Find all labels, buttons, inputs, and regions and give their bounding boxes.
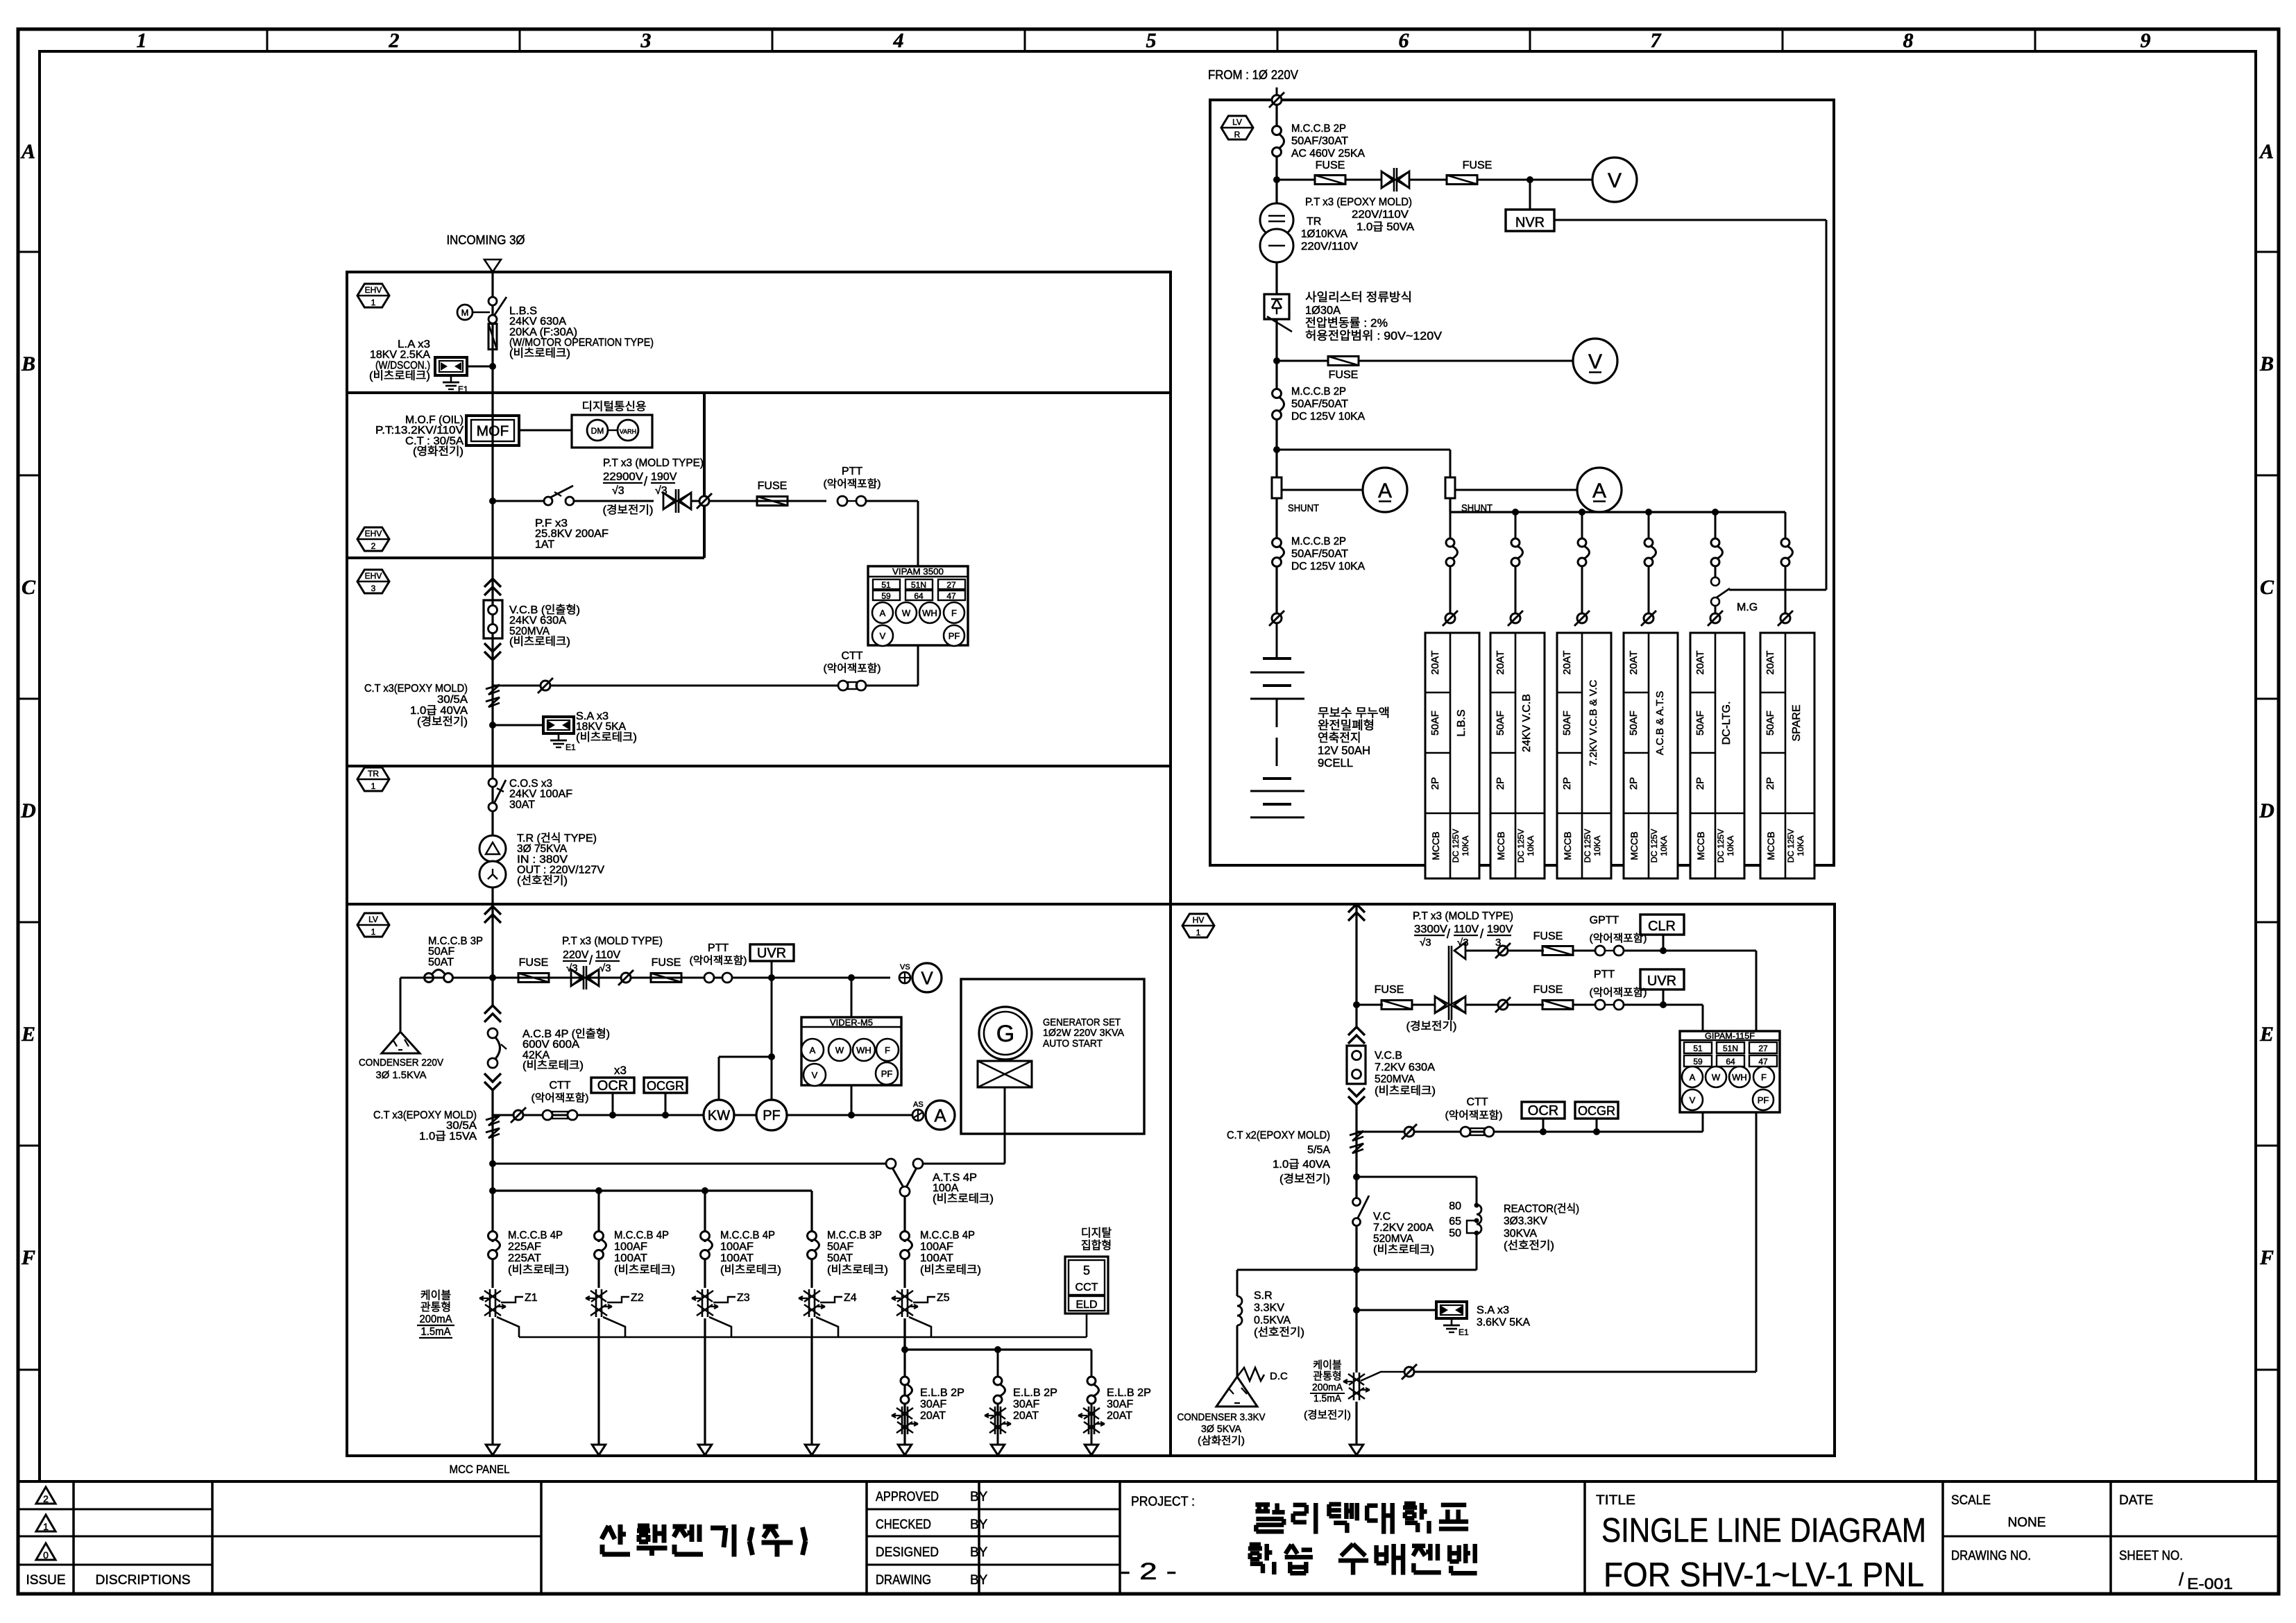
svg-text:59: 59 xyxy=(881,591,891,601)
svg-text:(비츠로테크): (비츠로테크) xyxy=(614,1264,675,1276)
svg-text:F: F xyxy=(2259,1246,2274,1269)
wire Z1-Z4 to bottom arrows xyxy=(486,1445,500,1455)
svg-text:CTT: CTT xyxy=(549,1080,570,1091)
svg-text:OCR: OCR xyxy=(597,1078,628,1094)
D.C resistor xyxy=(1237,1368,1264,1381)
svg-text:G: G xyxy=(996,1021,1014,1047)
disconnect PTT HV xyxy=(1498,1000,1508,1010)
svg-text:FUSE: FUSE xyxy=(1329,369,1359,381)
svg-text:√3: √3 xyxy=(1420,937,1431,949)
svg-text:(비츠로테크): (비츠로테크) xyxy=(576,731,637,743)
svg-text:100AT: 100AT xyxy=(720,1252,754,1264)
svg-text:UVR: UVR xyxy=(1647,974,1676,989)
svg-text:30AF: 30AF xyxy=(1107,1399,1133,1411)
svg-text:DC 125V: DC 125V xyxy=(1451,829,1461,863)
wire reactor loop top xyxy=(1357,1176,1477,1178)
current transformer C.T x2 xyxy=(1350,1131,1363,1141)
potential transformer P.T x3 LVR xyxy=(1381,171,1393,188)
svg-text:√3: √3 xyxy=(566,962,578,974)
zero phase CT Z1 xyxy=(489,1289,491,1317)
wire NVR to MG xyxy=(1554,219,1826,221)
drawout chevrons above VCB HV xyxy=(1348,1027,1365,1035)
svg-text:EHV: EHV xyxy=(365,529,382,538)
main bus LV-1 lower xyxy=(491,1090,493,1242)
svg-text:/: / xyxy=(589,953,593,967)
title block row lines approved-by section xyxy=(867,1509,1120,1511)
svg-text:/: / xyxy=(2179,1569,2184,1590)
svg-text:Z1: Z1 xyxy=(525,1292,538,1304)
svg-text:Z5: Z5 xyxy=(937,1292,950,1304)
wire ATS down xyxy=(903,1196,905,1242)
svg-text:50AT: 50AT xyxy=(428,956,454,968)
test terminal CTT xyxy=(838,681,848,690)
undervoltage relay UVR box xyxy=(750,944,794,961)
svg-text:FUSE: FUSE xyxy=(652,957,681,969)
main bus EHV-1 xyxy=(491,272,493,393)
svg-text:3300V: 3300V xyxy=(1414,924,1447,935)
no-voltage relay NVR box xyxy=(1506,210,1554,231)
svg-text:(비츠로테크): (비츠로테크) xyxy=(509,347,570,359)
power factor meter PF xyxy=(756,1100,787,1130)
wire CT meter line LV-1 xyxy=(493,1114,912,1116)
breaker M.C.C.B feeder 5 xyxy=(901,1232,910,1241)
wire ELD to common line xyxy=(1086,1314,1088,1337)
svg-text:M.C.C.B 4P: M.C.C.B 4P xyxy=(508,1230,563,1241)
svg-text:L.B.S: L.B.S xyxy=(1456,709,1468,736)
svg-text:10KA: 10KA xyxy=(1796,835,1805,856)
dc feeder bus xyxy=(1449,498,1451,512)
svg-text:DC 125V: DC 125V xyxy=(1786,829,1796,863)
svg-text:E1: E1 xyxy=(566,742,576,752)
disconnect CT line HV xyxy=(1404,1127,1414,1137)
potential transformer P.T x3 LV-1 xyxy=(571,969,582,986)
svg-text:(경보전기): (경보전기) xyxy=(603,504,654,516)
wire PF riser to UVR junction xyxy=(771,978,773,1057)
reactor taps xyxy=(1474,1203,1479,1208)
node reactor top xyxy=(1353,1173,1360,1180)
svg-text:100AT: 100AT xyxy=(614,1252,647,1264)
air circuit breaker A.C.B 4P xyxy=(488,1028,498,1038)
node bus PF junction xyxy=(489,498,496,504)
svg-text:LV: LV xyxy=(368,915,378,924)
main bus HV lower xyxy=(1355,1226,1357,1373)
hexagon HV-1 xyxy=(1182,914,1214,937)
svg-text:BY: BY xyxy=(970,1545,988,1560)
condenser delta HV xyxy=(1216,1377,1257,1407)
fuse EHV-2 PTT xyxy=(757,497,788,506)
generator G circle xyxy=(979,1007,1032,1060)
fuse LV-1 left xyxy=(518,974,549,983)
svg-text:190V: 190V xyxy=(651,471,677,483)
svg-text:(비츠로테크): (비츠로테크) xyxy=(1375,1085,1436,1097)
svg-text:10KA: 10KA xyxy=(1592,835,1602,856)
svg-text:E1: E1 xyxy=(1459,1327,1469,1337)
wire bus to ATS xyxy=(493,1163,886,1165)
svg-text:2P: 2P xyxy=(1429,777,1441,790)
svg-text:무보수 무누액: 무보수 무누액 xyxy=(1318,706,1390,720)
ZCT tail Z4 xyxy=(816,1317,838,1337)
svg-text:10KA: 10KA xyxy=(1659,835,1669,856)
EHV-2 sub box right edge xyxy=(703,393,706,558)
svg-text:5/5A: 5/5A xyxy=(1307,1144,1330,1156)
incoming feed arrow xyxy=(484,260,501,272)
svg-text:PF: PF xyxy=(949,631,960,641)
wire UVR to GIPAM xyxy=(1663,1004,1703,1006)
svg-text:(비츠로테크): (비츠로테크) xyxy=(933,1192,994,1205)
overcurrent relay OCR box HV xyxy=(1522,1102,1565,1119)
svg-text:20AT: 20AT xyxy=(1429,651,1441,675)
svg-text:A: A xyxy=(1378,479,1392,502)
wire to shunt 2 xyxy=(1277,449,1450,451)
svg-text:2P: 2P xyxy=(1495,777,1506,790)
test terminal CTT LV-1 xyxy=(543,1110,552,1120)
main bus HV-1 top chevron xyxy=(1348,904,1365,912)
svg-text:7.2KV 200A: 7.2KV 200A xyxy=(1373,1222,1434,1234)
svg-text:8: 8 xyxy=(1903,29,1914,52)
transfer switch A.T.S 4P xyxy=(886,1159,896,1169)
voltmeter V LV-1 xyxy=(912,963,942,992)
ELB ZCT 3 xyxy=(1091,1404,1093,1447)
svg-text:집합형: 집합형 xyxy=(1081,1239,1112,1252)
svg-text:3Ø 5KVA: 3Ø 5KVA xyxy=(1201,1423,1241,1435)
ZCT tail Z5 xyxy=(909,1317,931,1337)
svg-text:20AT: 20AT xyxy=(1495,651,1506,675)
wire M to LBS xyxy=(473,312,490,314)
svg-text:100AF: 100AF xyxy=(614,1241,647,1253)
breaker M.C.C.B 3P condenser xyxy=(425,974,434,983)
dc feeder 2 disconnect xyxy=(1511,613,1520,623)
wire NVR drop xyxy=(1529,180,1531,210)
svg-text:1: 1 xyxy=(43,1521,49,1532)
svg-text:520MVA: 520MVA xyxy=(1373,1233,1413,1245)
svg-text:(비츠로테크): (비츠로테크) xyxy=(369,370,430,382)
wire shunt1 down xyxy=(1275,498,1277,538)
svg-text:50AF/50AT: 50AF/50AT xyxy=(1291,398,1348,410)
svg-text:A.C.B & A.T.S: A.C.B & A.T.S xyxy=(1654,691,1666,756)
svg-text:S.R: S.R xyxy=(1254,1290,1273,1302)
hexagon EHV-1 xyxy=(357,284,389,307)
svg-text:(선호전기): (선호전기) xyxy=(1504,1239,1554,1252)
svg-text:B: B xyxy=(2259,352,2274,375)
svg-text:9CELL: 9CELL xyxy=(1318,756,1353,770)
svg-text:30/5A: 30/5A xyxy=(437,694,468,706)
svg-text:A: A xyxy=(2259,140,2274,163)
disconnect GPTT xyxy=(1498,946,1508,955)
svg-text:3: 3 xyxy=(640,29,652,52)
svg-text:P.T x3 (EPOXY MOLD): P.T x3 (EPOXY MOLD) xyxy=(1305,196,1412,208)
power fuse P.F x3 xyxy=(544,497,552,505)
lightning arrester L.A x3 xyxy=(435,357,467,375)
current transformer C.T x3 LV-1 xyxy=(486,1116,500,1125)
ELB feeder 1 xyxy=(904,1350,906,1376)
svg-text:VARH: VARH xyxy=(620,428,636,435)
svg-text:허용전압범위 : 90V~120V: 허용전압범위 : 90V~120V xyxy=(1305,330,1443,343)
svg-text:NONE: NONE xyxy=(2008,1515,2046,1530)
svg-text:(악어잭포함): (악어잭포함) xyxy=(532,1092,589,1104)
ELB ZCT 2 xyxy=(997,1404,999,1447)
svg-text:65: 65 xyxy=(1449,1216,1461,1227)
ELB ZCT 1 xyxy=(904,1404,906,1447)
transformer T.R xyxy=(479,835,506,862)
node EHV-2 box edge disconnect xyxy=(699,496,709,506)
svg-text:225AF: 225AF xyxy=(508,1241,541,1253)
svg-text:FUSE: FUSE xyxy=(1463,160,1493,171)
revision triangle 1 xyxy=(36,1515,56,1531)
svg-text:1.0급 40VA: 1.0급 40VA xyxy=(1273,1159,1330,1171)
svg-text:AS: AS xyxy=(913,1101,924,1109)
svg-text:MCCB: MCCB xyxy=(1495,831,1506,860)
svg-text:A: A xyxy=(20,140,35,163)
svg-text:110V: 110V xyxy=(595,949,621,961)
svg-text:V: V xyxy=(812,1070,818,1080)
svg-text:27: 27 xyxy=(946,580,956,590)
svg-text:(악어잭포함): (악어잭포함) xyxy=(690,955,747,967)
protective relay VIPAM 3500 box xyxy=(868,566,968,645)
svg-text:D: D xyxy=(2259,799,2274,822)
ZCT tail Z1 xyxy=(497,1317,519,1337)
section divider TR1 bottom / LV1 top xyxy=(347,903,1171,906)
svg-text:OCGR: OCGR xyxy=(1578,1104,1615,1118)
dc feeder 4 breaker xyxy=(1648,512,1650,538)
svg-text:SHUNT: SHUNT xyxy=(1288,502,1319,514)
svg-text:V: V xyxy=(880,631,886,641)
label Z2 xyxy=(607,1297,629,1302)
svg-text:MCCB: MCCB xyxy=(1765,831,1776,860)
svg-text:3Ø3.3KV: 3Ø3.3KV xyxy=(1504,1216,1547,1227)
svg-text:(비츠로테크): (비츠로테크) xyxy=(720,1264,781,1276)
voltmeter V underline LVR xyxy=(1573,339,1617,383)
main bus EHV-2 xyxy=(491,393,493,558)
acb chevron up xyxy=(484,1005,501,1014)
svg-text:20AT: 20AT xyxy=(1561,651,1573,675)
svg-text:64: 64 xyxy=(1726,1057,1735,1067)
potential transformer P.T x3 HV (3 winding) xyxy=(1435,996,1446,1013)
svg-text:1.0급 50VA: 1.0급 50VA xyxy=(1357,221,1414,233)
svg-text:1AT: 1AT xyxy=(535,538,554,550)
project name 학습 수배전반 xyxy=(1250,1543,1261,1547)
main bus LV-R top xyxy=(1275,105,1277,126)
voltmeter switch VS xyxy=(899,972,910,983)
svg-text:V: V xyxy=(1608,169,1622,192)
svg-text:110V: 110V xyxy=(1454,924,1479,935)
ammeter A underline 1 xyxy=(1282,489,1363,491)
dc feeder 2 table xyxy=(1490,633,1545,878)
svg-text:P.T x3 (MOLD TYPE): P.T x3 (MOLD TYPE) xyxy=(1413,910,1513,922)
wire to condenser xyxy=(400,977,437,979)
svg-text:100AF: 100AF xyxy=(920,1241,953,1253)
vacuum contactor V.C xyxy=(1353,1198,1361,1206)
wire MOF to DM/VARH box xyxy=(519,430,572,432)
svg-text:P.T x3 (MOLD TYPE): P.T x3 (MOLD TYPE) xyxy=(603,457,704,469)
main bus TR-1 xyxy=(491,766,493,835)
svg-text:SHEET NO.: SHEET NO. xyxy=(2119,1549,2183,1563)
node bus-LA junction xyxy=(489,363,496,370)
svg-text:1.0급 15VA: 1.0급 15VA xyxy=(419,1130,477,1142)
svg-text:(비츠로테크): (비츠로테크) xyxy=(509,636,570,648)
svg-text:51N: 51N xyxy=(911,580,926,590)
svg-text:225AT: 225AT xyxy=(508,1252,541,1264)
svg-text:AUTO START: AUTO START xyxy=(1043,1037,1103,1049)
svg-text:200mA: 200mA xyxy=(420,1314,452,1325)
dc feeder 6 disconnect xyxy=(1780,613,1790,623)
ELD common line xyxy=(519,1336,1087,1339)
wire VIDER to meter wire xyxy=(851,1085,853,1115)
node meter wire junction xyxy=(848,1112,855,1119)
svg-text:3Ø 1.5KVA: 3Ø 1.5KVA xyxy=(376,1069,427,1081)
svg-text:50AF: 50AF xyxy=(1694,711,1706,736)
svg-text:S.A x3: S.A x3 xyxy=(1477,1305,1509,1316)
wire VIDER drop xyxy=(851,978,853,1017)
svg-text:PTT: PTT xyxy=(1594,969,1615,980)
wire bus to surge arrester xyxy=(493,724,543,726)
svg-text:50AF/30AT: 50AF/30AT xyxy=(1291,135,1348,147)
dc feeder 1 table xyxy=(1425,633,1479,878)
zero phase CT Z2 xyxy=(595,1289,597,1317)
svg-text:1: 1 xyxy=(371,781,376,791)
svg-text:√3: √3 xyxy=(612,485,624,497)
title block vertical dividers xyxy=(72,1481,75,1594)
svg-text:20AT: 20AT xyxy=(1764,651,1776,675)
svg-text:VIPAM 3500: VIPAM 3500 xyxy=(892,566,944,577)
fuse of L.B.S xyxy=(488,324,497,350)
node UVR junction HV xyxy=(1660,1001,1667,1008)
svg-text:20AT: 20AT xyxy=(1694,651,1706,675)
svg-text:CHECKED: CHECKED xyxy=(876,1518,931,1532)
fuse LVR-3 xyxy=(1328,357,1359,366)
svg-text:DRAWING: DRAWING xyxy=(876,1573,931,1588)
wire reactor loop bottom xyxy=(1357,1269,1477,1271)
hexagon LV-1 xyxy=(357,913,389,937)
breaker M.C.C.B feeder 1 xyxy=(488,1232,498,1241)
surge arrester S.A x3 xyxy=(543,717,574,733)
svg-text:- 2 -: - 2 - xyxy=(1120,1558,1177,1585)
breaker M.C.C.B feeder 3 xyxy=(701,1232,710,1241)
svg-text:MCCB: MCCB xyxy=(1430,831,1441,860)
svg-text:ELD: ELD xyxy=(1075,1299,1097,1311)
transformer TR LVR xyxy=(1260,203,1293,237)
main bus EHV-3 xyxy=(491,558,493,766)
svg-text:A: A xyxy=(880,608,886,618)
svg-text:(경보전기): (경보전기) xyxy=(1406,1020,1457,1033)
wire rectifier to fuse branch xyxy=(1275,319,1277,389)
svg-text:E.L.B 2P: E.L.B 2P xyxy=(1107,1387,1151,1399)
svg-text:C: C xyxy=(2260,576,2274,599)
wire UVR down xyxy=(771,961,773,978)
svg-text:F: F xyxy=(1761,1072,1767,1082)
svg-text:220V/110V: 220V/110V xyxy=(1301,241,1358,253)
wire CT line HV xyxy=(1357,1131,1404,1133)
node CLR junction xyxy=(1660,947,1667,954)
svg-text:100AT: 100AT xyxy=(920,1252,953,1264)
node V branch xyxy=(1273,357,1280,364)
wire PTT branch HV xyxy=(1465,1004,1498,1006)
svg-text:10KA: 10KA xyxy=(1461,835,1470,856)
svg-text:50AF: 50AF xyxy=(1495,711,1506,736)
title block outline xyxy=(18,1480,2279,1483)
svg-text:E-001: E-001 xyxy=(2187,1575,2233,1592)
svg-text:M.G: M.G xyxy=(1737,602,1758,613)
svg-text:64: 64 xyxy=(914,591,924,601)
svg-text:50AF: 50AF xyxy=(1561,711,1573,736)
ELB feeder 3 xyxy=(1091,1350,1093,1376)
dc feeder 4 disconnect xyxy=(1644,613,1653,623)
svg-text:PTT: PTT xyxy=(842,466,862,477)
cutout switch C.O.S x3 xyxy=(488,779,497,787)
node shunt branch xyxy=(1273,446,1280,453)
svg-text:GIPAM-115F: GIPAM-115F xyxy=(1705,1031,1755,1041)
svg-text:DESIGNED: DESIGNED xyxy=(876,1545,939,1560)
svg-text:(경보전기): (경보전기) xyxy=(1279,1173,1330,1185)
shunt 1 xyxy=(1272,477,1282,498)
wire generator to ATS xyxy=(1004,1087,1006,1164)
svg-text:M.C.C.B 2P: M.C.C.B 2P xyxy=(1291,386,1346,398)
UVR box HV xyxy=(1663,989,1665,1005)
svg-text:관통형: 관통형 xyxy=(1313,1370,1341,1382)
svg-text:C: C xyxy=(22,576,36,599)
svg-text:M.C.C.B 4P: M.C.C.B 4P xyxy=(614,1230,669,1241)
svg-text:FUSE: FUSE xyxy=(1533,931,1563,942)
thyristor rectifier box xyxy=(1264,294,1289,319)
svg-text:50AF: 50AF xyxy=(1764,711,1776,736)
current transformer C.T x3 xyxy=(486,685,500,695)
svg-text:10KA: 10KA xyxy=(1726,835,1735,856)
svg-text:P.T x3 (MOLD TYPE): P.T x3 (MOLD TYPE) xyxy=(562,935,663,947)
svg-text:디지털통신용: 디지털통신용 xyxy=(582,400,647,413)
hexagon TR-1 xyxy=(357,767,389,791)
svg-text:5: 5 xyxy=(1083,1264,1090,1277)
column tick marks top margin xyxy=(266,29,269,51)
svg-text:(악어잭포함): (악어잭포함) xyxy=(824,478,881,490)
title block row lines left section xyxy=(18,1509,212,1511)
svg-text:F: F xyxy=(21,1246,35,1269)
svg-text:VIDER-M5: VIDER-M5 xyxy=(830,1017,873,1028)
svg-text:SPARE: SPARE xyxy=(1791,704,1803,741)
svg-text:TR: TR xyxy=(1307,216,1321,228)
title block row line issue area xyxy=(18,1536,541,1538)
generator exciter box xyxy=(978,1061,1032,1087)
wire VIPAM to CTT xyxy=(917,645,919,686)
svg-text:50AF: 50AF xyxy=(1429,711,1441,736)
svg-text:PROJECT :: PROJECT : xyxy=(1131,1495,1195,1509)
svg-text:22900V: 22900V xyxy=(603,471,643,483)
svg-text:50AF: 50AF xyxy=(827,1241,853,1253)
svg-text:E: E xyxy=(2259,1023,2274,1046)
svg-text:F: F xyxy=(885,1045,890,1055)
svg-text:(비츠로테크): (비츠로테크) xyxy=(920,1264,981,1276)
dc feeder 6 table xyxy=(1760,633,1814,878)
svg-text:220V: 220V xyxy=(563,949,589,961)
disconnect point LV-1 PT xyxy=(621,973,631,983)
svg-text:DC 125V: DC 125V xyxy=(1716,829,1726,863)
svg-text:관통형: 관통형 xyxy=(420,1301,451,1314)
ZCT tail Z2 xyxy=(603,1317,625,1337)
svg-text:APPROVED: APPROVED xyxy=(876,1490,939,1504)
panel box SHV sections outline xyxy=(347,272,1171,1456)
disconnect cable line HV xyxy=(1404,1367,1414,1377)
feeder drop Z4 xyxy=(810,1191,813,1242)
svg-text:30AF: 30AF xyxy=(920,1399,946,1411)
svg-text:51: 51 xyxy=(1693,1044,1703,1053)
svg-text:2P: 2P xyxy=(1764,777,1776,790)
title block row line scale/date xyxy=(1943,1536,2279,1538)
svg-text:51N: 51N xyxy=(1723,1044,1738,1053)
dc feeder 3 breaker xyxy=(1581,512,1583,538)
svg-text:V.C: V.C xyxy=(1373,1211,1391,1223)
svg-text:3.6KV 5KA: 3.6KV 5KA xyxy=(1477,1317,1530,1329)
svg-text:D.C: D.C xyxy=(1270,1370,1288,1382)
incoming chevrons LV-1 xyxy=(484,906,501,915)
svg-text:DC 125V 10KA: DC 125V 10KA xyxy=(1291,411,1365,423)
